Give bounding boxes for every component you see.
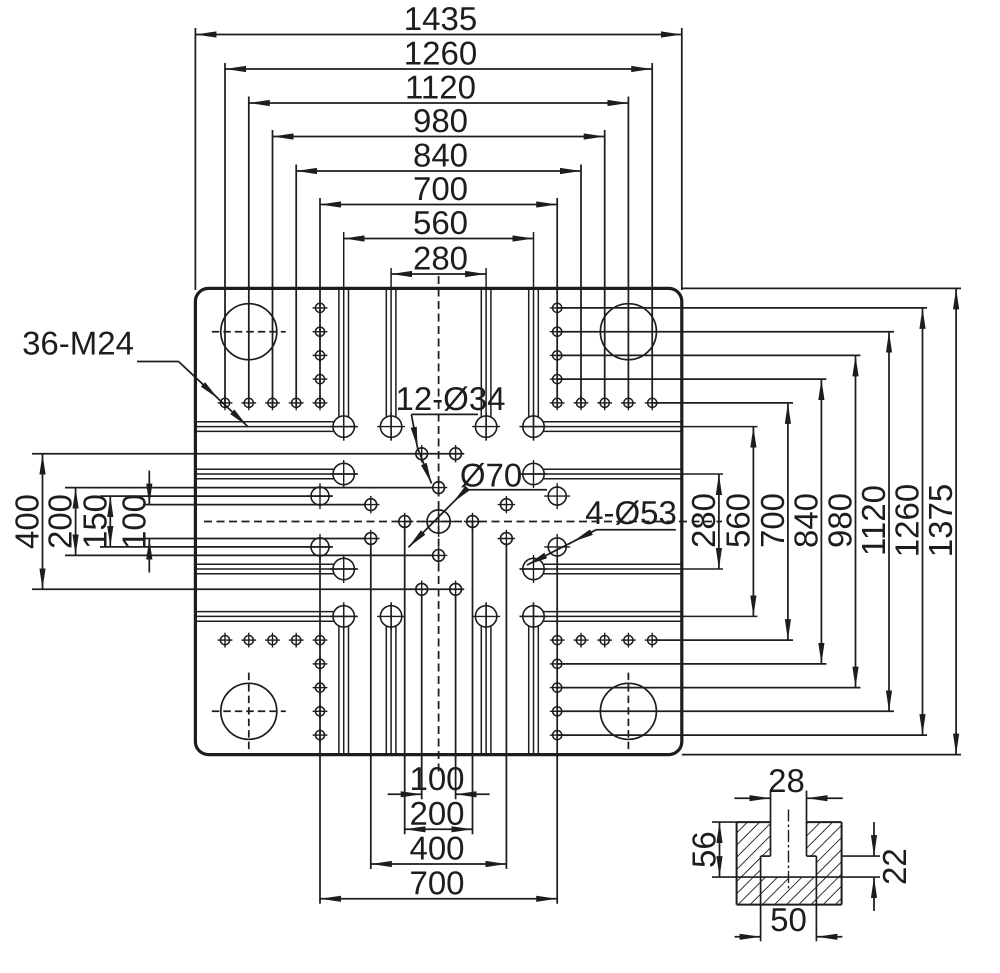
T-slot end hole (-280,-280)	[333, 416, 354, 437]
T-slot, horizontal arm, right, row -140	[543, 468, 682, 470]
dimension 1260 (right chain)	[922, 308, 924, 735]
dimension 280 (top chain)	[391, 273, 486, 275]
ext line col +630	[651, 63, 653, 408]
detail T-slot profile	[770, 791, 772, 857]
T-slot end hole (280,140)	[523, 558, 544, 579]
ext line row +560	[557, 710, 894, 712]
horizontal centerline (dashed)	[204, 521, 722, 523]
M24 tapped hole, bottom-left column, row 630	[315, 731, 324, 740]
ext line col +420	[580, 165, 582, 408]
dimension 28 (detail)	[734, 797, 770, 799]
M24 tapped hole, bottom-left row, col -560	[244, 636, 253, 645]
ext line row +75	[100, 546, 332, 548]
ext line row +50	[143, 538, 366, 540]
T-slot, vertical arm, bottom, col -280	[338, 626, 340, 755]
M24 tapped hole, top-left column, row -630	[315, 303, 324, 312]
D34 ejector hole (-50,-200)	[416, 448, 428, 460]
M24 tapped hole, top-right row, col 630	[648, 398, 657, 407]
dimension 200 (left)	[75, 488, 77, 556]
T-slot, horizontal arm, right, row 280	[543, 611, 682, 613]
ext line row -560	[557, 331, 894, 333]
dimension 100 (left, outside arrows)	[148, 471, 150, 505]
tie bar hole, top-right corner	[600, 304, 656, 360]
svg-text:560: 560	[719, 493, 756, 548]
tie bar hole crosshair, bottom-left vertical	[248, 673, 250, 750]
D34 ejector hole (-200,-50)	[365, 499, 377, 511]
detail centerline	[788, 810, 790, 890]
M24 tapped hole, top-left column, row -420	[315, 375, 324, 384]
ext line block top	[712, 821, 737, 823]
M24 tapped hole, top-left column, row -490	[315, 351, 324, 360]
ext line row +100	[65, 554, 433, 556]
T-slot, vertical arm, top, col -140	[385, 288, 387, 417]
svg-text:840: 840	[413, 136, 468, 173]
platen plate outline (1435 x 1375, rounded corners)	[195, 288, 681, 754]
svg-text:200: 200	[42, 494, 79, 549]
ext line col +200	[505, 544, 507, 869]
D34 ejector hole (50,200)	[450, 583, 462, 595]
dimension 840 (right chain)	[820, 379, 822, 664]
leader 4-D53	[596, 529, 676, 531]
ext line col +100	[472, 522, 474, 835]
M24 tapped hole, bottom-left row, col -490	[268, 636, 277, 645]
svg-text:1435: 1435	[404, 0, 477, 37]
D34 ejector hole (-200,50)	[365, 533, 377, 545]
M24 tapped hole, bottom-right column, row 560	[553, 707, 562, 716]
dimension 700 (top chain)	[320, 204, 557, 206]
T-slot end hole (140,-280)	[475, 416, 496, 437]
ext line row +350	[652, 639, 793, 641]
tie bar hole crosshair, bottom-right vertical	[627, 673, 629, 750]
ext line col -100	[404, 522, 406, 835]
dimension 100 (bottom, outside arrows)	[388, 793, 422, 795]
M24 tapped hole, top-left row, col -420	[292, 398, 301, 407]
D53 hole (350,-75)	[548, 487, 566, 505]
dimension 700 (right chain)	[787, 403, 789, 640]
ext line col -200	[370, 544, 372, 869]
svg-text:Ø70: Ø70	[460, 456, 522, 493]
dimension 1375 (right chain)	[955, 288, 957, 754]
ext line row -75	[100, 495, 332, 497]
T-slot, horizontal arm, left, row 280	[195, 611, 334, 613]
M24 tapped hole, bottom-right column, row 490	[553, 683, 562, 692]
svg-text:50: 50	[770, 901, 807, 938]
T-slot, vertical arm, bottom, col 280	[528, 626, 530, 755]
dimension 400 (left)	[42, 454, 44, 590]
tie bar hole crosshair, bottom-left horizontal	[212, 710, 286, 712]
T-slot end hole (280,280)	[523, 606, 544, 627]
D53 hole (-350,75)	[311, 538, 329, 556]
svg-text:280: 280	[685, 493, 722, 548]
ext line row +490	[557, 687, 861, 689]
svg-text:1120: 1120	[405, 68, 476, 105]
svg-text:700: 700	[413, 170, 468, 207]
ext line col -490	[272, 130, 274, 408]
ext line step level	[842, 855, 880, 857]
M24 tapped hole, bottom-right column, row 420	[553, 659, 562, 668]
ext line row -100	[65, 487, 433, 489]
M24 tapped hole, bottom-right row, col 560	[624, 636, 633, 645]
dimension 980 (right chain)	[855, 355, 857, 687]
M24 tapped hole, top-left row, col -560	[244, 398, 253, 407]
svg-text:840: 840	[787, 493, 824, 548]
T-slot section detail: hatched block	[737, 822, 771, 877]
svg-text:200: 200	[409, 795, 464, 832]
D34 ejector hole (0,-100)	[433, 482, 445, 494]
svg-text:22: 22	[876, 848, 913, 885]
D34 ejector hole (50,-200)	[450, 448, 462, 460]
dimension 700 (bottom chain)	[320, 898, 557, 900]
dimension 980 (top chain)	[273, 136, 605, 138]
M24 tapped hole, bottom-right column, row 350	[553, 636, 562, 645]
T-slot end hole (-280,140)	[333, 558, 354, 579]
dimension 280 (right chain)	[718, 474, 720, 569]
ext line col +490	[604, 130, 606, 408]
M24 tapped hole, bottom-left column, row 560	[315, 707, 324, 716]
M24 tapped hole, top-left row, col -630	[220, 398, 229, 407]
dimension 50 (detail)	[735, 936, 761, 938]
D53 hole (350,75)	[548, 538, 566, 556]
svg-text:700: 700	[409, 864, 464, 901]
D70 center locating hole	[427, 510, 450, 533]
svg-text:400: 400	[409, 829, 464, 866]
T-slot, horizontal arm, left, row -280	[195, 421, 334, 423]
ext line col -560	[248, 97, 250, 408]
dimension 1435 (top chain)	[195, 34, 681, 36]
tie bar hole, bottom-right corner	[600, 683, 656, 739]
dimension 56 (detail)	[719, 822, 721, 877]
dimension 1260 (top chain)	[225, 68, 652, 70]
ext line row -50	[143, 504, 366, 506]
D34 ejector hole (-50,200)	[416, 583, 428, 595]
ext line col -50	[421, 595, 423, 799]
leader 36-M24	[137, 361, 179, 363]
T-slot end hole (-280,-140)	[333, 463, 354, 484]
dimension 840 (top chain)	[296, 170, 581, 172]
svg-text:100: 100	[115, 494, 152, 549]
leader D70	[466, 489, 547, 491]
M24 tapped hole, top-left row, col -490	[268, 398, 277, 407]
svg-text:1375: 1375	[922, 484, 959, 557]
D34 ejector hole (200,-50)	[501, 499, 513, 511]
T-slot, horizontal arm, left, row -140	[195, 468, 334, 470]
svg-text:4-Ø53: 4-Ø53	[585, 494, 677, 531]
svg-text:28: 28	[768, 762, 805, 799]
ext line row +630	[557, 734, 927, 736]
svg-text:1120: 1120	[855, 485, 892, 556]
svg-text:280: 280	[413, 239, 468, 276]
M24 tapped hole, top-right column, row -490	[553, 351, 562, 360]
D53 hole (-350,-75)	[311, 487, 329, 505]
detail block outline	[737, 821, 771, 823]
ext line col +350	[556, 198, 558, 408]
T-slot, vertical arm, bottom, col 140	[480, 626, 482, 755]
M24 tapped hole, top-right column, row -630	[553, 303, 562, 312]
T-slot end hole (140,280)	[475, 606, 496, 627]
T-slot, vertical arm, top, col -280	[338, 288, 340, 417]
dimension 1120 (right chain)	[888, 332, 890, 712]
leader 12-D34	[411, 413, 478, 415]
tie bar hole, bottom-left corner	[221, 683, 277, 739]
T-slot, vertical arm, top, col 140	[480, 288, 482, 417]
svg-text:150: 150	[76, 494, 113, 549]
T-slot, horizontal arm, right, row 140	[543, 563, 682, 565]
tie bar hole crosshair, top-left horizontal	[212, 331, 286, 333]
M24 tapped hole, bottom-right row, col 630	[648, 636, 657, 645]
M24 tapped hole, top-left column, row -560	[315, 327, 324, 336]
dimension 22 (detail)	[873, 822, 875, 856]
M24 tapped hole, bottom-left column, row 490	[315, 683, 324, 692]
svg-text:1260: 1260	[889, 484, 926, 557]
vertical centerline (dashed)	[438, 276, 440, 772]
T-slot end hole (-140,-280)	[380, 416, 401, 437]
T-slot end hole (280,-140)	[523, 463, 544, 484]
M24 tapped hole, top-right row, col 490	[600, 398, 609, 407]
M24 tapped hole, bottom-left row, col -630	[220, 636, 229, 645]
M24 tapped hole, top-right column, row -560	[553, 327, 562, 336]
ext line row -420	[557, 378, 826, 380]
ext line 1435 left	[194, 28, 196, 290]
ext line col +50	[455, 595, 457, 799]
ext line 1375 top	[682, 287, 961, 289]
T-slot, horizontal arm, right, row -280	[543, 421, 682, 423]
ext line 1375 bottom	[682, 754, 961, 756]
svg-text:400: 400	[9, 494, 46, 549]
D34 ejector hole (100,0)	[467, 516, 479, 528]
M24 tapped hole, top-right column, row -420	[553, 375, 562, 384]
ext line col -420	[295, 165, 297, 408]
M24 tapped hole, bottom-right column, row 630	[553, 731, 562, 740]
M24 tapped hole, bottom-left row, col -420	[292, 636, 301, 645]
M24 tapped hole, top-right column, row -350	[553, 398, 562, 407]
M24 tapped hole, top-left column, row -350	[315, 398, 324, 407]
M24 tapped hole, bottom-left column, row 420	[315, 659, 324, 668]
D34 ejector hole (-100,0)	[399, 516, 411, 528]
ext line row -490	[557, 354, 861, 356]
svg-text:12-Ø34: 12-Ø34	[395, 380, 505, 417]
svg-text:56: 56	[686, 831, 723, 868]
svg-text:36-M24: 36-M24	[22, 324, 134, 361]
dimension 200 (bottom chain)	[405, 828, 473, 830]
M24 tapped hole, bottom-right row, col 420	[576, 636, 585, 645]
svg-text:700: 700	[754, 493, 791, 548]
svg-text:980: 980	[822, 493, 859, 548]
ext line col -630	[224, 63, 226, 408]
D34 ejector hole (200,50)	[501, 533, 513, 545]
dimension 560 (top chain)	[344, 238, 534, 240]
slot bottom line / ext line	[712, 876, 880, 878]
M24 tapped hole, top-right row, col 420	[576, 398, 585, 407]
M24 tapped hole, bottom-right row, col 490	[600, 636, 609, 645]
dimension 150 (left)	[109, 496, 111, 547]
dimension 400 (bottom chain)	[371, 863, 507, 865]
svg-text:560: 560	[413, 204, 468, 241]
ext line row -630	[557, 307, 927, 309]
ext line 1435 right	[681, 28, 683, 290]
ext line col -350	[319, 198, 321, 408]
ext line row -350	[652, 402, 793, 404]
svg-text:980: 980	[413, 102, 468, 139]
T-slot end hole (-140,280)	[380, 606, 401, 627]
T-slot end hole (-280,280)	[333, 606, 354, 627]
M24 tapped hole, top-right row, col 560	[624, 398, 633, 407]
tie bar hole, top-left corner	[221, 304, 277, 360]
ext line col +560	[627, 97, 629, 408]
T-slot end hole (280,-280)	[523, 416, 544, 437]
D34 ejector hole (0,100)	[433, 550, 445, 562]
dimension 560 (right chain)	[752, 427, 754, 617]
ext line row +200	[32, 588, 464, 590]
M24 tapped hole, bottom-left column, row 350	[315, 636, 324, 645]
ext line col -350	[319, 556, 321, 904]
T-slot, vertical arm, top, col 280	[528, 288, 530, 417]
T-slot, vertical arm, bottom, col -140	[385, 626, 387, 755]
ext line row +420	[557, 663, 826, 665]
dimension 1120 (top chain)	[249, 102, 629, 104]
ext line row -200	[32, 453, 464, 455]
svg-text:1260: 1260	[404, 34, 477, 71]
ext line col +350	[556, 556, 558, 904]
T-slot, horizontal arm, left, row 140	[195, 563, 334, 565]
